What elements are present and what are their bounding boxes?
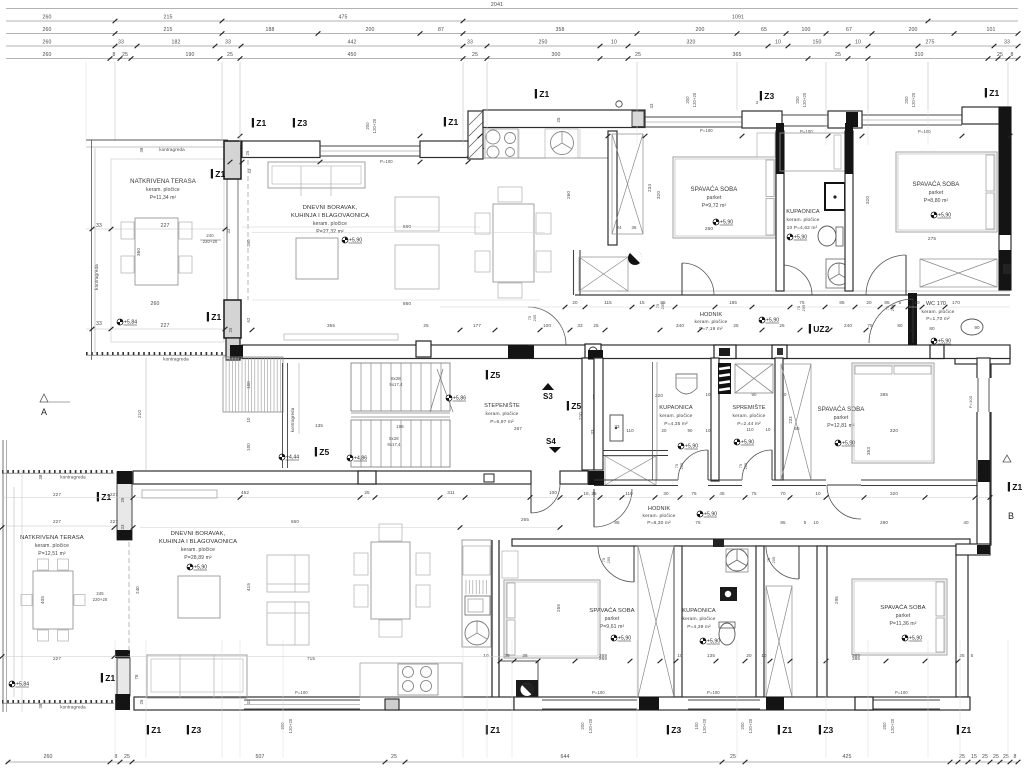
svg-text:240: 240 xyxy=(246,239,251,247)
svg-text:340: 340 xyxy=(676,323,684,328)
svg-text:25: 25 xyxy=(124,754,130,760)
svg-text:300: 300 xyxy=(552,52,561,58)
svg-text:Z1: Z1 xyxy=(215,169,225,179)
svg-text:kontragreda: kontragreda xyxy=(94,264,99,290)
svg-text:33: 33 xyxy=(96,223,102,229)
svg-text:240: 240 xyxy=(206,233,214,238)
svg-text:110: 110 xyxy=(625,491,633,496)
svg-text:P=27,32 m²: P=27,32 m² xyxy=(316,229,344,235)
svg-text:227: 227 xyxy=(161,323,170,329)
svg-text:33: 33 xyxy=(467,40,473,46)
svg-text:25: 25 xyxy=(423,323,429,328)
svg-text:358: 358 xyxy=(556,27,565,33)
svg-text:15: 15 xyxy=(971,754,977,760)
svg-text:85: 85 xyxy=(839,300,845,305)
svg-text:Z5: Z5 xyxy=(490,370,500,380)
svg-text:P=8,30 m²: P=8,30 m² xyxy=(647,520,671,526)
svg-text:260: 260 xyxy=(44,754,53,760)
svg-text:10: 10 xyxy=(246,417,251,423)
svg-text:KUPAONICA: KUPAONICA xyxy=(659,405,693,411)
svg-text:220+20: 220+20 xyxy=(93,597,108,602)
svg-text:101: 101 xyxy=(987,27,996,33)
svg-text:8x28: 8x28 xyxy=(389,436,399,441)
svg-text:10: 10 xyxy=(705,392,711,397)
svg-text:200: 200 xyxy=(795,96,800,104)
svg-text:120+20: 120+20 xyxy=(288,718,293,733)
svg-text:475: 475 xyxy=(339,15,348,21)
svg-text:36: 36 xyxy=(522,653,528,658)
svg-text:25: 25 xyxy=(835,52,841,58)
svg-text:265: 265 xyxy=(521,517,529,522)
svg-text:320: 320 xyxy=(890,491,898,496)
svg-text:450: 450 xyxy=(348,52,357,58)
svg-text:100: 100 xyxy=(549,490,557,495)
svg-text:+4,86: +4,86 xyxy=(354,456,367,462)
svg-text:parket: parket xyxy=(896,613,911,619)
svg-text:120+20: 120+20 xyxy=(748,718,753,733)
svg-text:227: 227 xyxy=(110,519,118,524)
svg-text:keram. pločice: keram. pločice xyxy=(146,187,180,193)
svg-text:SPAVAĆA SOBA: SPAVAĆA SOBA xyxy=(589,607,634,614)
svg-text:36: 36 xyxy=(631,225,637,230)
svg-text:P=1,70 m²: P=1,70 m² xyxy=(926,316,950,322)
svg-text:227: 227 xyxy=(161,223,170,229)
svg-text:110: 110 xyxy=(746,427,754,432)
svg-text:227: 227 xyxy=(110,492,118,497)
svg-text:+5,90: +5,90 xyxy=(909,636,922,642)
svg-text:25: 25 xyxy=(635,52,641,58)
svg-text:227: 227 xyxy=(53,492,61,497)
svg-text:P=11,36 m²: P=11,36 m² xyxy=(889,621,916,627)
svg-text:260: 260 xyxy=(566,191,571,199)
svg-text:185: 185 xyxy=(729,300,737,305)
svg-text:115: 115 xyxy=(604,300,612,305)
svg-text:+5,90: +5,90 xyxy=(741,440,754,446)
svg-text:+5,90: +5,90 xyxy=(704,512,717,518)
svg-text:33: 33 xyxy=(649,103,654,109)
svg-text:10: 10 xyxy=(483,653,489,658)
svg-text:205: 205 xyxy=(802,305,806,312)
svg-text:205: 205 xyxy=(772,557,776,564)
svg-text:Z1: Z1 xyxy=(151,725,161,735)
svg-text:KUPAONICA: KUPAONICA xyxy=(682,608,716,614)
svg-text:100: 100 xyxy=(246,381,251,389)
svg-text:25: 25 xyxy=(139,699,144,705)
svg-text:135: 135 xyxy=(315,423,323,428)
svg-text:33: 33 xyxy=(225,40,231,46)
svg-text:parket: parket xyxy=(605,616,620,622)
svg-text:20: 20 xyxy=(746,653,752,658)
svg-text:P=4,35 m²: P=4,35 m² xyxy=(664,421,688,427)
svg-text:75: 75 xyxy=(867,323,873,328)
svg-text:75: 75 xyxy=(691,491,697,496)
svg-text:25: 25 xyxy=(245,150,250,155)
svg-text:Z1: Z1 xyxy=(490,725,500,735)
svg-text:90: 90 xyxy=(974,325,980,330)
svg-text:65: 65 xyxy=(761,27,767,33)
svg-text:200: 200 xyxy=(904,96,909,104)
svg-text:275: 275 xyxy=(928,236,937,242)
svg-text:P=4,39 m²: P=4,39 m² xyxy=(687,624,711,630)
svg-text:Z3: Z3 xyxy=(191,725,201,735)
svg-text:355: 355 xyxy=(327,323,335,328)
svg-text:10: 10 xyxy=(611,40,617,46)
svg-text:5: 5 xyxy=(971,653,974,658)
svg-text:Z1: Z1 xyxy=(105,673,115,683)
svg-text:120+20: 120+20 xyxy=(702,718,707,733)
svg-text:keram. pločice: keram. pločice xyxy=(181,547,215,553)
svg-text:Z1: Z1 xyxy=(211,312,221,322)
svg-text:360: 360 xyxy=(136,248,141,256)
svg-text:33: 33 xyxy=(118,40,124,46)
svg-text:385: 385 xyxy=(852,653,860,658)
svg-text:keram. pločice: keram. pločice xyxy=(660,413,693,419)
svg-text:267: 267 xyxy=(514,426,522,431)
svg-text:9x17,4: 9x17,4 xyxy=(389,382,403,387)
svg-text:100: 100 xyxy=(694,722,699,730)
svg-text:NATKRIVENA TERASA: NATKRIVENA TERASA xyxy=(20,535,84,541)
svg-text:25: 25 xyxy=(472,52,478,58)
svg-text:269: 269 xyxy=(599,653,607,658)
svg-text:310: 310 xyxy=(915,52,924,58)
svg-text:320: 320 xyxy=(656,191,661,199)
svg-text:320: 320 xyxy=(865,196,870,204)
svg-text:+5,90: +5,90 xyxy=(618,636,631,642)
svg-text:Z1: Z1 xyxy=(1012,482,1022,492)
svg-text:150: 150 xyxy=(813,40,822,46)
svg-text:200: 200 xyxy=(685,96,690,104)
svg-text:25: 25 xyxy=(730,754,736,760)
svg-text:75: 75 xyxy=(886,306,890,310)
svg-text:200: 200 xyxy=(580,722,585,730)
svg-text:215: 215 xyxy=(164,27,173,33)
svg-text:10: 10 xyxy=(705,428,711,433)
svg-text:80: 80 xyxy=(929,326,935,331)
svg-text:85: 85 xyxy=(614,520,620,525)
svg-text:25: 25 xyxy=(227,52,233,58)
svg-text:245: 245 xyxy=(96,591,104,596)
svg-text:30: 30 xyxy=(663,491,669,496)
svg-text:+5,90: +5,90 xyxy=(938,213,951,219)
svg-text:2041: 2041 xyxy=(491,2,503,8)
svg-text:5: 5 xyxy=(804,520,807,525)
svg-text:+5,90: +5,90 xyxy=(842,441,855,447)
svg-text:Z1: Z1 xyxy=(782,725,792,735)
svg-text:25: 25 xyxy=(364,490,370,495)
svg-text:NATKRIVENA TERASA: NATKRIVENA TERASA xyxy=(130,178,197,185)
svg-text:234: 234 xyxy=(647,184,652,192)
svg-text:85: 85 xyxy=(884,300,890,305)
svg-text:85: 85 xyxy=(780,520,786,525)
svg-text:10: 10 xyxy=(815,491,821,496)
svg-text:260: 260 xyxy=(43,52,52,58)
svg-text:10: 10 xyxy=(813,520,819,525)
svg-text:8: 8 xyxy=(1011,52,1014,58)
svg-text:25: 25 xyxy=(733,323,739,328)
svg-text:P=12,81 m²: P=12,81 m² xyxy=(827,423,855,429)
svg-text:10: 10 xyxy=(677,653,683,658)
svg-text:260: 260 xyxy=(705,226,714,232)
svg-text:Z1: Z1 xyxy=(989,88,999,98)
svg-text:keram. pločice: keram. pločice xyxy=(695,319,728,325)
svg-text:10: 10 xyxy=(765,427,771,432)
svg-text:40: 40 xyxy=(963,520,969,525)
svg-text:+5,90: +5,90 xyxy=(194,565,207,571)
svg-text:UZ2: UZ2 xyxy=(813,324,830,334)
svg-text:75: 75 xyxy=(799,300,805,305)
svg-text:188: 188 xyxy=(266,27,275,33)
svg-text:405: 405 xyxy=(40,596,45,604)
svg-text:5: 5 xyxy=(899,300,902,305)
svg-text:78: 78 xyxy=(134,674,139,680)
svg-text:+4,44: +4,44 xyxy=(286,455,299,461)
svg-text:385: 385 xyxy=(880,392,888,397)
svg-text:120+20: 120+20 xyxy=(372,118,377,133)
svg-text:295: 295 xyxy=(834,596,839,604)
svg-text:365: 365 xyxy=(733,52,742,58)
svg-text:507: 507 xyxy=(256,754,265,760)
svg-text:33: 33 xyxy=(96,321,102,327)
svg-text:P=12,51 m²: P=12,51 m² xyxy=(38,551,66,557)
svg-text:110: 110 xyxy=(626,428,634,433)
svg-text:75: 75 xyxy=(739,464,743,468)
svg-text:100: 100 xyxy=(802,27,811,33)
svg-text:33: 33 xyxy=(120,524,125,530)
svg-text:P=9,72 m²: P=9,72 m² xyxy=(702,203,727,209)
svg-text:275: 275 xyxy=(926,40,935,46)
svg-text:10: 10 xyxy=(781,392,787,397)
svg-text:70: 70 xyxy=(780,491,786,496)
svg-text:75: 75 xyxy=(675,464,679,468)
svg-text:+5,84: +5,84 xyxy=(16,682,29,688)
svg-text:200: 200 xyxy=(909,27,918,33)
svg-text:Z5: Z5 xyxy=(571,401,581,411)
svg-text:452: 452 xyxy=(241,490,249,495)
svg-text:KUHINJA I BLAGOVAONICA: KUHINJA I BLAGOVAONICA xyxy=(159,539,237,545)
svg-text:15: 15 xyxy=(639,300,645,305)
svg-text:75: 75 xyxy=(695,520,701,525)
svg-text:25: 25 xyxy=(993,754,999,760)
svg-text:38: 38 xyxy=(139,147,144,152)
svg-text:205: 205 xyxy=(533,315,537,322)
svg-text:259: 259 xyxy=(556,604,561,612)
svg-text:P=11,34 m²: P=11,34 m² xyxy=(150,195,177,201)
svg-text:WC 170: WC 170 xyxy=(926,301,946,307)
svg-text:P=6,97 m²: P=6,97 m² xyxy=(490,419,514,425)
svg-text:10 P=4,62 m²: 10 P=4,62 m² xyxy=(787,225,818,231)
svg-text:P=100: P=100 xyxy=(707,690,720,695)
svg-text:A: A xyxy=(41,407,47,417)
svg-text:P=100: P=100 xyxy=(295,690,308,695)
svg-text:100: 100 xyxy=(543,323,551,328)
svg-text:25: 25 xyxy=(120,497,125,503)
svg-text:P=8,80 m²: P=8,80 m² xyxy=(924,198,949,204)
svg-text:415: 415 xyxy=(246,583,251,591)
svg-text:24: 24 xyxy=(616,225,622,230)
svg-text:P=7,19 m²: P=7,19 m² xyxy=(699,326,723,332)
svg-text:SPAVAĆA SOBA: SPAVAĆA SOBA xyxy=(691,186,739,193)
svg-text:200: 200 xyxy=(366,27,375,33)
svg-text:33: 33 xyxy=(246,699,251,705)
svg-text:keram. pločice: keram. pločice xyxy=(643,513,676,519)
svg-text:205: 205 xyxy=(744,463,748,470)
svg-text:KUPAONICA: KUPAONICA xyxy=(786,209,820,215)
svg-text:25: 25 xyxy=(779,323,785,328)
svg-text:B: B xyxy=(1008,511,1014,521)
svg-text:10: 10 xyxy=(855,40,861,46)
svg-text:+5,90: +5,90 xyxy=(720,220,733,226)
svg-text:DNEVNI BORAVAK,: DNEVNI BORAVAK, xyxy=(171,531,226,537)
svg-text:25: 25 xyxy=(122,52,128,58)
svg-text:200: 200 xyxy=(882,722,887,730)
svg-text:100: 100 xyxy=(246,443,251,451)
svg-text:+5,90: +5,90 xyxy=(794,235,807,241)
svg-text:parket: parket xyxy=(834,415,849,421)
svg-text:Z1: Z1 xyxy=(539,89,549,99)
svg-text:90: 90 xyxy=(687,428,693,433)
svg-text:200: 200 xyxy=(696,27,705,33)
svg-text:10: 10 xyxy=(914,300,920,305)
svg-text:75: 75 xyxy=(528,316,532,320)
svg-text:120+20: 120+20 xyxy=(588,718,593,733)
svg-text:P=28,89 m²: P=28,89 m² xyxy=(184,555,212,561)
svg-text:233: 233 xyxy=(788,416,793,424)
svg-text:280: 280 xyxy=(880,520,888,525)
svg-text:200: 200 xyxy=(740,722,745,730)
svg-text:87: 87 xyxy=(438,27,444,33)
svg-text:SPREMIŠTE: SPREMIŠTE xyxy=(732,404,765,411)
svg-text:+5,84: +5,84 xyxy=(124,320,137,326)
svg-text:320: 320 xyxy=(687,40,696,46)
svg-text:kontragreda: kontragreda xyxy=(163,357,189,362)
svg-text:10: 10 xyxy=(775,40,781,46)
svg-text:STEPENIŠTE: STEPENIŠTE xyxy=(484,402,520,409)
svg-text:kontragreda: kontragreda xyxy=(60,475,86,480)
svg-text:8: 8 xyxy=(1014,754,1017,760)
svg-text:260: 260 xyxy=(43,40,52,46)
svg-text:62: 62 xyxy=(246,317,251,322)
svg-text:DNEVNI BORAVAK,: DNEVNI BORAVAK, xyxy=(303,205,358,211)
svg-text:25: 25 xyxy=(593,323,599,328)
svg-text:260: 260 xyxy=(151,301,160,307)
svg-text:205: 205 xyxy=(680,463,684,470)
svg-text:1091: 1091 xyxy=(732,15,744,21)
svg-text:75: 75 xyxy=(602,558,606,562)
svg-text:SPAVAĆA SOBA: SPAVAĆA SOBA xyxy=(880,604,925,611)
svg-text:P=100: P=100 xyxy=(380,159,393,164)
svg-text:+5,90: +5,90 xyxy=(707,639,720,645)
svg-text:P=100: P=100 xyxy=(700,128,713,133)
svg-text:SPAVAĆA SOBA: SPAVAĆA SOBA xyxy=(913,181,961,188)
svg-text:353: 353 xyxy=(866,447,871,455)
svg-text:300: 300 xyxy=(280,722,285,730)
svg-text:250: 250 xyxy=(539,40,548,46)
svg-text:20: 20 xyxy=(572,300,578,305)
svg-text:25: 25 xyxy=(391,754,397,760)
svg-text:33: 33 xyxy=(577,323,583,328)
svg-text:196: 196 xyxy=(396,424,404,429)
svg-text:Z3: Z3 xyxy=(823,725,833,735)
svg-text:36: 36 xyxy=(504,653,510,658)
svg-text:keram. pločice: keram. pločice xyxy=(35,543,69,549)
svg-text:P=100: P=100 xyxy=(968,395,973,408)
svg-text:Z3: Z3 xyxy=(764,91,774,101)
svg-text:260: 260 xyxy=(43,15,52,21)
svg-text:135: 135 xyxy=(707,653,715,658)
svg-text:Z1: Z1 xyxy=(448,117,458,127)
svg-text:Z1: Z1 xyxy=(961,725,971,735)
svg-text:8: 8 xyxy=(113,52,116,58)
svg-text:205: 205 xyxy=(607,557,611,564)
svg-text:Z1: Z1 xyxy=(256,118,266,128)
svg-text:215: 215 xyxy=(164,15,173,21)
svg-text:18, 25: 18, 25 xyxy=(583,491,597,496)
svg-text:9x17,4: 9x17,4 xyxy=(387,442,401,447)
svg-text:P=100: P=100 xyxy=(918,129,931,134)
svg-text:S3: S3 xyxy=(543,392,553,401)
svg-text:Z5: Z5 xyxy=(319,447,329,457)
svg-text:P=100: P=100 xyxy=(895,690,908,695)
svg-text:kontragreda: kontragreda xyxy=(290,407,295,432)
svg-text:75: 75 xyxy=(656,304,660,308)
svg-text:S4: S4 xyxy=(546,437,556,446)
svg-text:240: 240 xyxy=(135,586,140,594)
svg-text:+5,90: +5,90 xyxy=(349,238,362,244)
svg-text:200: 200 xyxy=(365,122,370,130)
svg-text:Z3: Z3 xyxy=(297,118,307,128)
svg-text:25: 25 xyxy=(982,754,988,760)
svg-text:HODNIK: HODNIK xyxy=(648,506,671,512)
svg-text:75: 75 xyxy=(797,306,801,310)
svg-text:20: 20 xyxy=(866,300,872,305)
svg-text:182: 182 xyxy=(172,40,181,46)
svg-text:177: 177 xyxy=(473,323,481,328)
svg-text:SPAVAĆA SOBA: SPAVAĆA SOBA xyxy=(818,406,866,413)
svg-text:425: 425 xyxy=(843,754,852,760)
svg-text:205: 205 xyxy=(661,303,665,310)
svg-text:keram. pločice: keram. pločice xyxy=(922,309,955,315)
svg-text:parket: parket xyxy=(929,190,944,196)
svg-text:kontragreda: kontragreda xyxy=(159,147,185,152)
svg-text:+5,86: +5,86 xyxy=(453,396,466,402)
svg-text:keram. pločice: keram. pločice xyxy=(787,217,820,223)
svg-text:kontragreda: kontragreda xyxy=(60,705,86,710)
svg-text:65: 65 xyxy=(794,426,800,431)
svg-text:442: 442 xyxy=(348,40,357,46)
svg-text:P=9,61 m²: P=9,61 m² xyxy=(600,624,625,630)
svg-text:keram. pločice: keram. pločice xyxy=(313,221,347,227)
svg-text:210: 210 xyxy=(137,410,142,418)
svg-text:311: 311 xyxy=(447,490,455,495)
svg-text:45: 45 xyxy=(719,491,725,496)
svg-text:320: 320 xyxy=(890,428,899,434)
svg-text:keram. pločice: keram. pločice xyxy=(733,413,766,419)
svg-text:HODNIK: HODNIK xyxy=(700,312,723,318)
svg-text:25: 25 xyxy=(556,117,561,123)
svg-text:+5,90: +5,90 xyxy=(685,444,698,450)
svg-text:10: 10 xyxy=(761,653,767,658)
svg-text:190: 190 xyxy=(186,52,195,58)
svg-text:67: 67 xyxy=(846,27,852,33)
svg-text:8x28: 8x28 xyxy=(391,376,401,381)
svg-text:644: 644 xyxy=(561,754,570,760)
svg-text:260: 260 xyxy=(43,27,52,33)
svg-text:75: 75 xyxy=(751,491,757,496)
svg-text:20: 20 xyxy=(661,428,667,433)
svg-text:75: 75 xyxy=(767,558,771,562)
svg-text:25: 25 xyxy=(228,327,233,332)
svg-text:KUHINJA I BLAGOVAONICA: KUHINJA I BLAGOVAONICA xyxy=(291,213,369,219)
